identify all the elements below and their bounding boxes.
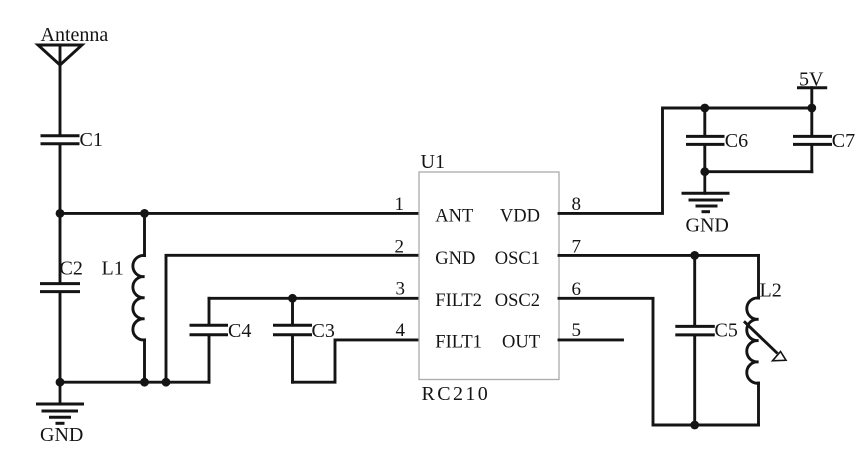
antenna	[38, 45, 82, 65]
capacitor C1	[42, 136, 78, 144]
inductor L1	[133, 213, 145, 382]
ground symbol mid	[683, 172, 728, 212]
wire net ANT (pin 1)	[60, 212, 419, 215]
svg-text:C1: C1	[80, 129, 103, 151]
inductor L2	[747, 255, 759, 425]
wire net GND (pin 2)	[166, 255, 419, 382]
wire C1 to node ANT	[59, 145, 62, 213]
svg-text:C5: C5	[715, 319, 738, 341]
junction VDD / C6	[700, 104, 709, 113]
junction C3 top on FILT2	[288, 294, 297, 303]
svg-text:U1: U1	[421, 151, 445, 173]
svg-text:GND: GND	[686, 215, 729, 237]
svg-text:Antenna: Antenna	[41, 24, 109, 46]
svg-text:OSC1: OSC1	[495, 249, 540, 269]
junction L1 top node	[140, 209, 149, 218]
capacitor C6	[688, 108, 724, 172]
svg-text:L1: L1	[102, 257, 124, 279]
svg-text:4: 4	[396, 320, 406, 341]
junction antenna/C2 node	[56, 209, 65, 218]
wire C6 bottom to C7 bottom	[705, 170, 812, 173]
svg-text:FILT1: FILT1	[435, 333, 482, 353]
capacitor C3	[275, 298, 311, 382]
svg-text:ANT: ANT	[435, 207, 473, 227]
junction ground rail / pin2 wire	[162, 378, 171, 387]
svg-text:FILT2: FILT2	[435, 291, 482, 311]
svg-text:RC210: RC210	[422, 383, 491, 405]
svg-text:C7: C7	[832, 130, 855, 152]
svg-text:VDD: VDD	[500, 207, 540, 227]
wire net VDD (pin 8)	[559, 108, 812, 213]
ground symbol left	[38, 382, 83, 423]
svg-text:C2: C2	[60, 257, 83, 279]
svg-text:C6: C6	[725, 130, 748, 152]
svg-text:1: 1	[395, 194, 405, 215]
svg-text:GND: GND	[435, 249, 475, 269]
L2 tuning arrow	[745, 322, 786, 361]
svg-text:GND: GND	[40, 424, 83, 446]
svg-text:3: 3	[396, 278, 406, 299]
svg-text:5: 5	[572, 320, 582, 341]
wire net FILT2 (pin 3)	[209, 297, 419, 300]
IC U1 body	[419, 172, 559, 380]
svg-text:5V: 5V	[799, 69, 824, 91]
svg-text:C4: C4	[228, 320, 251, 342]
svg-text:OSC2: OSC2	[495, 291, 540, 311]
wire node to C2	[59, 213, 62, 282]
junction C6 bottom / ground	[700, 167, 709, 176]
wire antenna lead to C1	[59, 65, 62, 134]
power 5V symbol	[799, 88, 826, 108]
wire C3 bottom to pin 4 FILT1	[293, 340, 420, 382]
junction ground rail / L1	[140, 378, 149, 387]
capacitor C7	[795, 108, 831, 172]
ground rail left	[60, 381, 209, 384]
svg-text:8: 8	[572, 194, 582, 215]
svg-text:C3: C3	[312, 320, 335, 342]
junction OSC1 / C5	[690, 251, 699, 260]
capacitor C2	[42, 284, 79, 292]
svg-text:2: 2	[395, 236, 405, 257]
svg-text:L2: L2	[760, 280, 782, 302]
junction ground rail / C2	[56, 378, 65, 387]
capacitor C5	[677, 255, 714, 425]
wire net OSC1 (pin 7)	[559, 254, 759, 257]
junction C5 bottom	[690, 421, 699, 430]
svg-text:OUT: OUT	[502, 333, 540, 353]
wire net OSC2 (pin 6)	[559, 298, 759, 425]
wire C2 to ground rail	[59, 293, 62, 382]
wire pin 5 OUT stub	[559, 338, 623, 341]
capacitor C4	[191, 298, 227, 382]
junction VDD / C7 / 5V	[807, 104, 816, 113]
